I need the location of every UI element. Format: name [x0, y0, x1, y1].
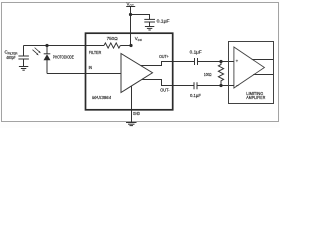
svg-text:PHOTODIODE: PHOTODIODE	[53, 55, 74, 60]
node: RF / VCC junction	[129, 44, 132, 47]
resistor R2 100 ohm vertical zigzag	[218, 62, 223, 86]
svg-text:480pF: 480pF	[6, 55, 16, 60]
svg-text:OUT+: OUT+	[159, 54, 169, 59]
capacitor C4 0.1uF (OUT-)	[193, 82, 195, 89]
photodiode D1 anode triangle	[44, 54, 51, 60]
photodiode D1 leads and cathode bar	[46, 46, 48, 54]
limiting amplifier U2 triangle	[234, 47, 265, 88]
chip box U1 MAX3864	[86, 33, 173, 110]
border frame	[2, 3, 279, 122]
svg-text:GND: GND	[133, 111, 140, 116]
wire: C4 to limiting amp - input	[197, 85, 234, 87]
capacitor C3 0.1uF (OUT+)	[194, 58, 196, 65]
svg-text:MAX3864: MAX3864	[92, 95, 111, 101]
wire: IN from photodiode to amplifier	[47, 73, 121, 75]
ground (chip GND)	[126, 122, 137, 124]
node: OUT+ / R2 junction	[219, 60, 222, 63]
wire: C3 to limiting amp + input	[198, 61, 234, 63]
svg-text:0.1µF: 0.1µF	[157, 18, 170, 23]
op-amp U1 core triangle	[121, 54, 153, 93]
svg-text:0.1µF: 0.1µF	[190, 49, 202, 54]
svg-text:IN: IN	[89, 65, 92, 70]
svg-text:FILTER: FILTER	[89, 50, 102, 55]
photodiode light arrow 2	[33, 50, 39, 56]
svg-text:0.1µF: 0.1µF	[190, 93, 201, 98]
svg-text:750Ω: 750Ω	[107, 36, 119, 41]
wire: GND from amplifier to ground	[131, 86, 133, 122]
node: VCC branch junction	[129, 13, 132, 16]
wire: cap to ground	[149, 22, 151, 27]
photodiode light arrow 1	[35, 48, 41, 54]
svg-text:OUT-: OUT-	[160, 88, 170, 93]
svg-text:+: +	[236, 59, 239, 64]
wire: VCC vertical down into box to 750 ohm junction	[130, 7, 132, 46]
limiting amp output wires	[252, 59, 274, 61]
limiting amplifier U2 box	[229, 42, 274, 104]
wire: OUT+ inner jog	[141, 62, 194, 66]
wire: FILTER line from CFILTER cap to resistor	[24, 45, 105, 47]
wire: resistor to VCC junction	[120, 45, 131, 47]
svg-text:−: −	[236, 83, 239, 88]
node: photodiode / CFILTER junction	[45, 44, 48, 47]
svg-text:AMPLIFIER: AMPLIFIER	[246, 95, 265, 100]
resistor R1 750 ohm zigzag	[104, 43, 120, 48]
ground (CFILTER)	[19, 66, 28, 68]
svg-text:100Ω: 100Ω	[204, 72, 212, 77]
ground (bypass cap)	[145, 26, 154, 28]
node: OUT- / R2 junction	[219, 84, 222, 87]
supply VCC rail tick	[126, 6, 135, 8]
capacitor C1 CFILTER 480pF	[23, 46, 25, 57]
capacitor C2 0.1uF plates	[144, 18, 155, 20]
wire: OUT- inner jog	[142, 80, 194, 86]
wire: branch to bypass cap	[131, 15, 150, 20]
